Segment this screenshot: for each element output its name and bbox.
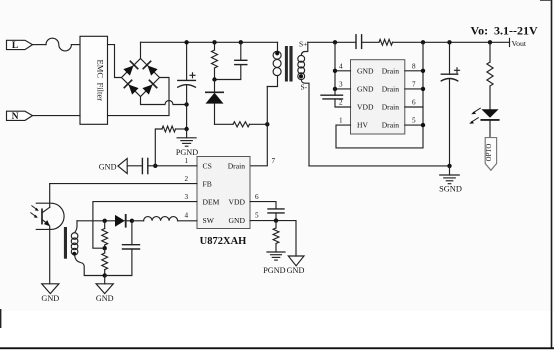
node SGND: [447, 164, 451, 168]
diode D3 bridge bottom-left: [124, 80, 138, 94]
node diode cathode: [130, 219, 134, 223]
svg-text:SW: SW: [203, 216, 215, 225]
LED D7 (opto diode): [481, 109, 498, 137]
node pin5 junction: [274, 218, 278, 222]
node CS junction: [153, 164, 157, 168]
node S+: [333, 40, 337, 44]
capacitor C5 (VDD bypass): [268, 209, 284, 221]
svg-text:GND: GND: [287, 266, 305, 275]
svg-text:N: N: [12, 112, 19, 122]
svg-text:1: 1: [339, 117, 343, 125]
svg-text:VDD: VDD: [357, 103, 374, 112]
svg-text:PGND: PGND: [176, 148, 198, 157]
ground GND arrow (CS): [118, 158, 127, 173]
svg-text:EMC Filter: EMC Filter: [96, 60, 106, 102]
resistor R6 (GND to PGND): [273, 221, 279, 252]
svg-text:OPTO: OPTO: [486, 144, 493, 162]
wire bridge negative rail with hop: [141, 97, 187, 105]
net label Vout: [510, 38, 527, 48]
node bulk cap bottom: [184, 102, 188, 106]
resistor R8 (LED series): [487, 42, 493, 109]
transformer T1 core: [285, 46, 293, 82]
svg-text:GND: GND: [229, 216, 246, 225]
wire VDD pin 6: [250, 202, 276, 209]
node snubber C top: [239, 40, 243, 44]
svg-text:5: 5: [412, 117, 416, 125]
node R3 right: [184, 127, 188, 131]
node pin 8: [421, 69, 425, 73]
diode D2 bridge top-right: [143, 61, 157, 75]
svg-text:1: 1: [185, 157, 189, 165]
diode D5 (clamp): [206, 80, 224, 125]
op IC U1 U872XAH body: [197, 157, 250, 229]
svg-text:DEM: DEM: [203, 197, 220, 206]
ground SGND (secondary earth): [440, 166, 460, 184]
svg-text:GND: GND: [99, 162, 117, 171]
svg-text:U872XAH: U872XAH: [200, 236, 247, 247]
wire N to EMC filter: [33, 115, 81, 117]
svg-text:SGND: SGND: [439, 185, 462, 194]
resistor R4 (divider top): [102, 221, 108, 248]
fuse F1: [46, 38, 71, 51]
LED emission arrows: [469, 108, 480, 124]
svg-text:VDD: VDD: [229, 197, 246, 206]
node drain rail: [421, 40, 425, 44]
transformer T1 secondary winding: [298, 42, 309, 166]
node LED branch: [488, 40, 492, 44]
wire FB pin: [50, 183, 197, 185]
capacitor C7 (U2 VDD): [321, 89, 351, 107]
wire S+ rail: [308, 41, 356, 43]
wire GND pin 5: [250, 221, 296, 256]
transformer T1 primary winding: [267, 42, 281, 86]
svg-text:L: L: [12, 41, 18, 51]
wire CS pin: [155, 165, 197, 167]
svg-text:Drain: Drain: [382, 85, 399, 94]
svg-text:4: 4: [185, 212, 189, 220]
node snubber R top: [212, 40, 216, 44]
bridge rectifier diamond: [122, 59, 160, 97]
wire top rail: [141, 41, 278, 43]
inductor L1: [132, 217, 197, 221]
svg-text:5: 5: [255, 212, 259, 220]
svg-text:Vo: 3.1--21V: Vo: 3.1--21V: [471, 24, 539, 38]
transformer aux winding: [71, 221, 104, 276]
node divider mid: [103, 246, 107, 250]
svg-text:CS: CS: [203, 162, 212, 171]
diode D1 bridge top-left: [123, 61, 137, 75]
svg-text:Drain: Drain: [228, 162, 245, 171]
capacitor C6 (secondary snubber): [356, 35, 362, 49]
node divider bottom: [103, 273, 107, 277]
ground PGND (primary earth): [177, 129, 196, 146]
svg-text:7: 7: [412, 80, 416, 88]
node C1 top: [184, 40, 188, 44]
svg-text:GND: GND: [357, 66, 374, 75]
wire EMC to bridge AC2: [108, 78, 170, 116]
wire U2 HV pin 1 loop: [336, 125, 423, 148]
node drain junction: [265, 122, 269, 126]
svg-text:3: 3: [185, 193, 189, 201]
wire EMC to bridge AC1: [108, 45, 122, 78]
wire L to fuse: [33, 44, 47, 46]
node Vout cap: [447, 40, 451, 44]
resistor R1 (snubber): [212, 42, 218, 79]
terminal L: [7, 40, 33, 51]
transformer T1 secondary polarity dot: [299, 74, 303, 78]
EMC filter block: [80, 36, 108, 124]
wire bridge to top rail: [140, 42, 142, 58]
opto light arrows: [31, 206, 39, 218]
resistor R7 (secondary snubber): [362, 39, 510, 45]
capacitor C4 (aux filter): [105, 221, 140, 276]
transformer aux winding core: [64, 227, 67, 259]
wire DEM pin: [93, 202, 197, 249]
svg-text:4: 4: [339, 62, 343, 70]
wire divider bottom to ground: [104, 276, 106, 284]
svg-text:6: 6: [412, 99, 416, 107]
svg-text:FB: FB: [203, 179, 212, 188]
resistor R3 (CS sense): [155, 105, 186, 166]
svg-text:Vout: Vout: [512, 39, 527, 48]
diode D4 bridge bottom-right: [142, 80, 156, 94]
opto transistor Q1: [36, 184, 64, 284]
svg-text:PGND: PGND: [263, 266, 285, 275]
svg-text:S+: S+: [299, 39, 307, 48]
ground GND (aux): [96, 284, 113, 294]
wire secondary return rail: [309, 165, 450, 167]
resistor R2 (clamp series): [215, 122, 268, 127]
capacitor C3 (CS filter): [127, 158, 155, 173]
capacitor C8 (output electrolytic): [441, 42, 459, 166]
ground GND (opto emitter): [42, 284, 59, 294]
node pin 5: [421, 123, 425, 127]
op IC U2 body: [351, 60, 405, 134]
wire fuse to EMC filter: [71, 44, 80, 46]
wire U2 GND pins left: [335, 42, 351, 89]
node snubber junction: [212, 77, 216, 81]
svg-text:GND: GND: [357, 85, 374, 94]
svg-text:Drain: Drain: [382, 66, 399, 75]
capacitor C2 (snubber): [215, 42, 247, 79]
svg-text:HV: HV: [357, 121, 368, 130]
wire U2 drain pins right: [405, 42, 423, 125]
svg-text:3: 3: [339, 80, 343, 88]
svg-text:2: 2: [185, 175, 189, 183]
svg-text:GND: GND: [41, 294, 59, 303]
svg-text:Drain: Drain: [382, 121, 399, 130]
node A diode anode: [103, 219, 107, 223]
svg-text:2: 2: [339, 99, 343, 107]
terminal N: [7, 111, 33, 122]
svg-text:7: 7: [272, 157, 276, 165]
ground GND triangle (U1): [288, 256, 304, 266]
capacitor C1 (bulk electrolytic): [178, 42, 196, 104]
node pin 7: [421, 87, 425, 91]
wire drain net: [250, 87, 267, 166]
terminal OPTO flag: [485, 138, 496, 171]
svg-text:S-: S-: [301, 83, 308, 92]
wire aux to diode node: [77, 220, 115, 222]
transformer aux polarity dot: [72, 252, 76, 256]
resistor R5 (divider bottom): [102, 248, 108, 275]
svg-text:GND: GND: [96, 294, 114, 303]
svg-text:6: 6: [255, 193, 259, 201]
ground PGND (U1): [267, 252, 285, 260]
node pin 4: [333, 69, 337, 73]
transformer T1 primary polarity dot: [275, 51, 279, 55]
node pin 3: [333, 87, 337, 91]
svg-text:Drain: Drain: [382, 103, 399, 112]
svg-text:8: 8: [412, 62, 416, 70]
diode D6 (aux rectifier): [115, 215, 132, 227]
